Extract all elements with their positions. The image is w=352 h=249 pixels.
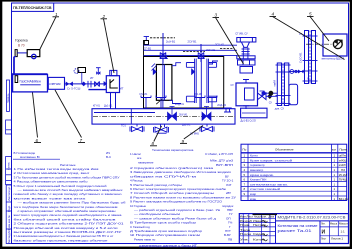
svg-text:2шУ-В1: 2шУ-В1 <box>166 39 176 43</box>
svg-text:Ст2О-В1: Ст2О-В1 <box>299 52 303 63</box>
node dot black <box>269 91 274 96</box>
svg-text:Котел: Котел <box>250 154 258 158</box>
svg-text:Прим: Прим <box>340 148 348 152</box>
manifold inner pipe <box>94 112 155 114</box>
economizer inner line <box>242 112 266 114</box>
boiler 2 top flanges <box>186 63 216 68</box>
svg-text:3: 3 <box>215 13 218 18</box>
manifold valve 1 stem <box>170 107 175 117</box>
svg-text:Ду1-В1 Ст2О: Ду1-В1 Ст2О <box>241 119 256 122</box>
link circle 1 <box>290 70 294 74</box>
svg-text:счетчик газовый: счетчик газовый <box>250 187 281 191</box>
leader 2 <box>101 14 115 73</box>
svg-text:4: 4 <box>272 12 275 17</box>
svg-text:кнар: кнар <box>250 192 256 196</box>
manifold valve 2 stem <box>204 107 209 117</box>
title block <box>239 214 349 244</box>
svg-text:Ду2-И1: Ду2-И1 <box>182 124 191 127</box>
vent bowtie <box>96 71 100 75</box>
leader 5 <box>307 12 329 41</box>
svg-text:2: 2 <box>102 14 106 19</box>
boiler 2 column a <box>194 59 196 103</box>
wire inlet line <box>262 92 277 94</box>
top-left inverted designation stamp <box>12 3 54 11</box>
svg-text:кол: кол <box>332 149 337 152</box>
svg-text:Разраб: Разраб <box>240 220 253 223</box>
svg-text:Подпись: Подпись <box>7 93 10 103</box>
leader 8 <box>150 126 162 146</box>
riser 1 <box>162 33 164 63</box>
regulator lever black <box>110 79 118 88</box>
left margin graphs <box>6 80 12 244</box>
svg-text:И: И <box>322 230 326 236</box>
wire gauge drop <box>81 73 83 84</box>
margin graph 2 <box>6 120 12 134</box>
svg-text:Сидор: Сидор <box>253 233 266 236</box>
notes text column 1 <box>13 151 126 242</box>
svg-text:Лит.: Лит. <box>321 223 326 226</box>
svg-text:Котов: Котов <box>253 239 266 242</box>
svg-text:В: В <box>308 77 310 81</box>
svg-text:В 70: В 70 <box>18 43 25 47</box>
svg-text:в ШМУ: в ШМУ <box>339 163 346 167</box>
svg-text:В-С: В-С <box>106 155 112 159</box>
svg-text:нм/М: нм/М <box>273 80 277 87</box>
svg-text:Листов 1: Листов 1 <box>331 238 344 241</box>
svg-text:ВУГ-ВПП: ВУГ-ВПП <box>216 163 233 167</box>
svg-text:Клапан ПКН: Клапан ПКН <box>250 178 266 182</box>
tower wide bar <box>237 56 255 59</box>
vent T small <box>96 68 101 75</box>
svg-text:ПЗ: ПЗ <box>341 168 345 172</box>
svg-text:Ст 5-ГСШ: Ст 5-ГСШ <box>67 87 81 91</box>
notes text column 2 <box>130 148 236 247</box>
tower lower stack <box>238 60 256 73</box>
svg-text:Иванов: Иванов <box>253 220 267 223</box>
svg-text:1:1: 1:1 <box>341 230 346 234</box>
bypass pipe <box>88 89 106 91</box>
burner body <box>27 50 40 57</box>
svg-text:кран шаров.: кран шаров. <box>250 173 274 177</box>
regulator actuator <box>110 70 117 75</box>
filter F1 side pot <box>289 84 298 105</box>
node dot blue <box>262 91 266 95</box>
wire drop pipe b <box>115 93 117 109</box>
svg-text:ГазСНАБЖен: ГазСНАБЖен <box>20 80 41 84</box>
link circle 2 <box>295 70 297 72</box>
svg-text:2СУ-И1: 2СУ-И1 <box>215 43 225 47</box>
boiler 1 hatch <box>152 64 157 71</box>
counter G1 column a <box>305 31 309 84</box>
wall riser black <box>143 40 145 57</box>
filter F1 column b <box>285 63 289 106</box>
svg-text:2СУ-В1: 2СУ-В1 <box>188 39 197 43</box>
manifold axis dashdot <box>93 115 235 117</box>
burner nozzle circle <box>32 54 36 58</box>
boiler 2 column b <box>206 59 208 103</box>
right cells texts <box>321 223 349 241</box>
boiler 1 bottom ledge <box>170 100 182 103</box>
drain valve C <box>200 124 214 131</box>
svg-text:Утв.: Утв. <box>240 239 250 242</box>
boiler 2 burner triangle <box>191 68 195 75</box>
fan box U5 <box>323 34 347 56</box>
svg-text:Т.кон: Т.кон <box>240 229 251 232</box>
wire link right <box>266 95 277 97</box>
svg-text:Ду1-И1: Ду1-И1 <box>104 105 113 108</box>
manifold valve 2 <box>202 112 211 120</box>
manifold outlet flange <box>224 108 232 112</box>
tower flange stack <box>242 47 250 58</box>
svg-text:Петров: Петров <box>253 224 267 227</box>
svg-text:ИТ: ИТ <box>120 86 124 90</box>
safety box bottom T <box>243 106 249 109</box>
leader 4 <box>270 12 345 60</box>
margin graph upper <box>7 80 10 111</box>
svg-text:По: По <box>243 148 247 152</box>
wire cross link <box>289 71 305 73</box>
svg-text:ПВ: ПВ <box>228 237 232 241</box>
valve V2 cross <box>88 81 100 88</box>
svg-text:Инв.№дубл.: Инв.№дубл. <box>7 229 11 244</box>
leader 9 <box>180 126 203 144</box>
leader 3 <box>213 13 244 64</box>
svg-text:8: 8 <box>152 141 155 146</box>
svg-text:6: 6 <box>36 138 39 143</box>
tower funnel <box>241 42 249 47</box>
svg-text:Подп.: Подп. <box>7 205 11 212</box>
svg-text:монтажные Вт: монтажные Вт <box>20 155 41 159</box>
parts table <box>241 144 348 201</box>
gauge body black <box>78 68 86 73</box>
vent valve B2 <box>207 96 217 109</box>
vent valve B1 <box>195 96 205 109</box>
fan impulse dashdot <box>306 43 333 45</box>
svg-text:В41.2Н: В41.2Н <box>339 197 349 201</box>
svg-text:ТО1: ТО1 <box>121 125 126 128</box>
svg-text:Обозначение: Обозначение <box>275 148 294 152</box>
svg-text:2СГ-И1: 2СГ-И1 <box>206 48 215 52</box>
svg-text:Инв.№подл.: Инв.№подл. <box>7 186 11 201</box>
left grid texts <box>240 216 275 242</box>
economizer rect <box>241 108 267 118</box>
wall mount bar <box>15 50 17 57</box>
wire burner feed <box>17 52 27 54</box>
manifold collector <box>92 109 235 124</box>
svg-text:Режим нами по: Режим нами по <box>134 237 156 241</box>
drain valve B <box>154 124 169 133</box>
svg-text:базового общих прогонов, перев: базового общих прогонов, переводы обычно… <box>14 238 108 242</box>
leader 7 <box>55 90 85 143</box>
svg-text:ИГ: ИГ <box>90 76 94 80</box>
wire burner down pipe <box>13 57 15 75</box>
fan symbol <box>333 40 342 49</box>
leader 1 <box>40 12 59 49</box>
svg-text:кран: кран <box>250 197 256 201</box>
svg-text:Дата: Дата <box>269 216 275 219</box>
impulse dash mid <box>183 51 205 53</box>
svg-text:ПУ4Ш: ПУ4Ш <box>339 178 348 182</box>
svg-text:КГ-И1: КГ-И1 <box>93 105 100 108</box>
impulse dash line top <box>150 37 175 39</box>
svg-text:2КУ-И1: 2КУ-И1 <box>179 113 188 116</box>
meter box U2 <box>48 77 64 89</box>
svg-text:КГ2-И2: КГ2-И2 <box>194 93 203 96</box>
svg-text:2СД-И2: 2СД-И2 <box>217 104 226 107</box>
svg-text:счетчик: счетчик <box>49 82 61 86</box>
boiler 1 bottom tick black <box>156 99 162 104</box>
svg-text:Изм Лист №докум.: Изм Лист №докум. <box>240 216 267 219</box>
svg-text:сигнализатор загаз.: сигнализатор загаз. <box>250 182 288 186</box>
boiler 1 burner triangle <box>153 68 157 75</box>
manifold valve 1 <box>168 112 177 120</box>
svg-text:Л4Т: Л4Т <box>226 183 232 187</box>
boiler 2 bottom flanges <box>186 96 216 102</box>
margin graph lower column <box>6 185 11 244</box>
valve stem right <box>260 91 265 96</box>
svg-text:ГВ-ТЕПЛОСНАБЖ.ГСВ: ГВ-ТЕПЛОСНАБЖ.ГСВ <box>13 6 52 10</box>
node filled diamond <box>81 82 86 87</box>
margin graph 3 <box>6 157 12 185</box>
svg-text:расчет Та-01: расчет Та-01 <box>278 229 312 233</box>
wire burner top link <box>14 56 16 58</box>
boiler 1 shell <box>156 65 172 101</box>
node diamond black <box>267 94 272 99</box>
boiler 2 axis <box>200 55 202 109</box>
counter G1 flanges <box>303 36 318 81</box>
valve V1 arrows <box>66 82 73 87</box>
svg-text:сайТех: сайТех <box>339 154 347 158</box>
leader 6 <box>33 93 42 144</box>
svg-text:Пров.: Пров. <box>240 224 250 227</box>
safety box inner <box>245 88 255 100</box>
svg-text:Ст.баНс, к.ЛГУ-ОП: Ст.баНс, к.ЛГУ-ОП <box>205 152 233 156</box>
gauge T top <box>144 37 149 41</box>
safety box U4 <box>236 83 258 106</box>
svg-text:МОДИТ6.ГВ-2.0110.07.023.00-ГСВ: МОДИТ6.ГВ-2.0110.07.023.00-ГСВ <box>278 216 347 220</box>
svg-text:9: 9 <box>182 139 185 144</box>
wire drop pipe a <box>110 93 112 109</box>
drain valve A <box>130 124 144 131</box>
svg-text:тиб4ОШ: тиб4ОШ <box>339 158 347 162</box>
GRU sensor <box>15 76 18 83</box>
filter F1 column a <box>277 63 281 106</box>
wire main gas pipe <box>65 83 107 85</box>
counter G1 axis <box>309 31 311 84</box>
riser 1 valve <box>160 53 166 59</box>
valve bowtie right <box>258 93 267 100</box>
vent valve A2 <box>156 96 166 109</box>
gauge dashed circle <box>74 69 79 74</box>
svg-text:СУ: СУ <box>231 84 235 87</box>
gauge body black sq <box>144 41 148 45</box>
boiler 1 right ledge <box>172 63 181 66</box>
manifold divider <box>130 109 132 124</box>
wire frame stub <box>12 73 48 75</box>
svg-text:вентилятор ВД-2,7: вентилятор ВД-2,7 <box>322 56 345 60</box>
svg-text:Масса: Масса <box>330 223 338 226</box>
svg-text:Горелка: Горелка <box>15 39 28 43</box>
svg-text:Взам.инв.№: Взам.инв.№ <box>7 215 11 230</box>
svg-text:Н.кон: Н.кон <box>240 233 252 236</box>
boiler house wall <box>144 57 224 109</box>
outer black border <box>0 0 352 2</box>
svg-text:КГ2-И1: КГ2-И1 <box>140 93 149 96</box>
boiler 2 right ledge <box>209 61 218 64</box>
riser 2 valve <box>198 53 204 59</box>
wire pipe y45 <box>144 44 238 46</box>
riser 2 <box>200 44 202 62</box>
svg-text:манометр: манометр <box>250 168 264 172</box>
svg-text:термометр: термометр <box>250 163 265 167</box>
signature scribbles <box>262 221 268 241</box>
GRU box U1 <box>13 75 48 92</box>
stamp top dark bar <box>253 213 278 215</box>
vent valve A1 <box>141 96 151 109</box>
GRU underline <box>20 84 41 86</box>
boiler 2 top bracket <box>198 56 205 59</box>
svg-text:Кран шаров. стальной: Кран шаров. стальной <box>250 158 293 162</box>
regulator body U3 <box>106 76 119 93</box>
impulse dash right <box>220 48 234 50</box>
seat triangle <box>104 81 108 86</box>
actuator spring <box>111 70 113 75</box>
svg-text:намерение: намерение <box>138 160 154 164</box>
svg-text:1: 1 <box>55 12 58 17</box>
tower top bar <box>237 38 256 43</box>
svg-text:СУ: СУ <box>269 102 273 105</box>
counter G1 column b <box>312 31 316 84</box>
filter F1 flanges <box>276 65 291 104</box>
svg-text:2СД-И1: 2СД-И1 <box>175 103 184 106</box>
boiler 1 axis <box>162 56 164 109</box>
boiler 1 top bracket <box>160 54 168 59</box>
filter F1 axis <box>282 63 284 106</box>
svg-text:7: 7 <box>80 138 83 143</box>
safety box top T <box>243 80 249 84</box>
svg-text:5: 5 <box>309 12 312 17</box>
wire pipe y50 <box>144 49 238 51</box>
svg-text:25.2М: 25.2М <box>339 173 348 177</box>
svg-text:СГ ИВ, СУ: СГ ИВ, СУ <box>235 32 248 36</box>
svg-text:Соглас: Соглас <box>8 161 11 170</box>
link bowtie <box>298 70 304 74</box>
svg-text:Лист: Лист <box>321 238 327 241</box>
svg-text:Техническая характеристика: Техническая характеристика <box>152 148 194 152</box>
wire pipe y55 <box>144 54 238 56</box>
svg-text:Масшт: Масшт <box>339 223 349 226</box>
svg-text:дин. СУ: дин. СУ <box>275 107 285 111</box>
svg-text:Котельная на схеме: Котельная на схеме <box>278 224 318 228</box>
